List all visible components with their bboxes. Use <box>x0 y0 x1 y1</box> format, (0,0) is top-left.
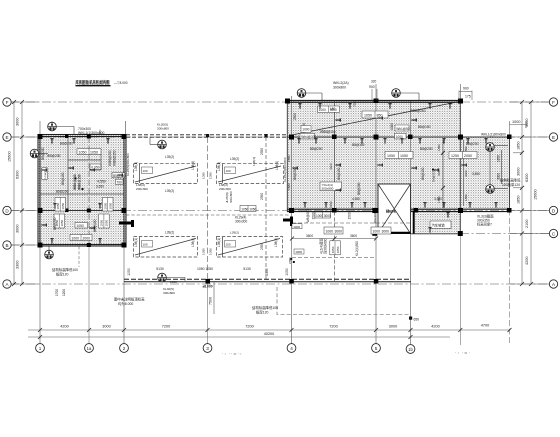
svg-text:1050: 1050 <box>104 202 108 209</box>
grid axis E chain line <box>10 136 549 138</box>
tag circle left block top <box>48 122 74 135</box>
big block right edge x460 <box>459 101 461 235</box>
right dimension lines <box>510 102 549 284</box>
svg-text:2350: 2350 <box>287 155 291 162</box>
svg-text:KL2(4)300: KL2(4)300 <box>355 241 359 256</box>
scattered labels below D area <box>306 209 359 256</box>
white box on E line big block <box>300 133 317 139</box>
svg-text:B8@200: B8@200 <box>420 147 433 151</box>
beam row1 slope lines <box>135 166 281 182</box>
svg-text:Wb4@300: Wb4@300 <box>301 135 316 139</box>
leader below left block <box>78 247 80 268</box>
svg-text:3,550: 3,550 <box>96 185 104 189</box>
svg-text:300x800: 300x800 <box>333 86 346 90</box>
columns left block <box>38 134 127 248</box>
svg-text:3000: 3000 <box>389 325 397 329</box>
white label box 0.050 left block <box>90 164 101 170</box>
svg-text:B6@200: B6@200 <box>432 170 436 182</box>
svg-text:5130: 5130 <box>243 267 251 271</box>
left dimension lines <box>10 102 38 284</box>
wall tee mark mid strip right <box>283 217 293 227</box>
svg-text:W8@200: W8@200 <box>306 209 310 223</box>
dim line y238.5 below D <box>290 237 378 241</box>
svg-text:1000: 1000 <box>512 120 520 124</box>
extra labels mid strip rows <box>136 157 256 284</box>
svg-text:6300: 6300 <box>16 171 20 179</box>
svg-text:1050: 1050 <box>202 248 206 255</box>
right block interior dim and tags <box>494 146 508 189</box>
extra labels big block band <box>352 101 426 113</box>
svg-text:板厚120: 板厚120 <box>256 310 269 315</box>
svg-text:WB8@150: WB8@150 <box>113 150 117 166</box>
svg-text:1: 1 <box>39 346 42 351</box>
big block bottom edge beam on D <box>287 209 510 211</box>
rotated white box pair above D right <box>103 198 114 212</box>
axis circle B left <box>3 241 11 249</box>
svg-text:1050 1050: 1050 1050 <box>197 267 213 271</box>
left block internal beam vertical x68 <box>67 137 69 211</box>
svg-text:B6@200: B6@200 <box>56 190 69 194</box>
svg-text:300x800: 300x800 <box>163 291 175 295</box>
svg-text:1050: 1050 <box>209 248 213 255</box>
left block outline beams <box>38 135 126 247</box>
svg-text:1050: 1050 <box>105 219 109 226</box>
top labels big block <box>333 81 471 99</box>
label box pair near stair <box>320 182 342 191</box>
scattered rebar labels left block <box>41 142 117 233</box>
faint marks bottom <box>222 351 470 356</box>
svg-text:B: B <box>5 243 8 248</box>
svg-text:1500: 1500 <box>348 212 352 219</box>
white box B5 right side <box>112 173 126 178</box>
svg-text:1700: 1700 <box>55 289 59 296</box>
svg-text:650: 650 <box>414 318 420 322</box>
svg-text:1850: 1850 <box>464 194 468 201</box>
svg-text:2: 2 <box>123 346 126 351</box>
stub above axis2 <box>124 121 126 135</box>
hatch ramp block below D <box>413 212 461 235</box>
svg-text:40200: 40200 <box>264 332 275 336</box>
svg-text:L39(2): L39(2) <box>165 155 174 159</box>
white box on D line below <box>315 212 331 218</box>
svg-text:100: 100 <box>143 243 148 247</box>
svg-text:3000: 3000 <box>335 229 343 233</box>
svg-text:4700: 4700 <box>481 324 489 328</box>
axis circle 4 bottom <box>287 344 296 353</box>
svg-text:WB8@200: WB8@200 <box>73 174 77 190</box>
svg-text:1050: 1050 <box>127 268 131 276</box>
svg-text:B8@150: B8@150 <box>337 167 341 180</box>
white box 1000 left band big block <box>301 126 311 133</box>
dim labels mid strip bottom <box>127 267 289 276</box>
svg-text:1050: 1050 <box>77 224 85 228</box>
svg-text:3000: 3000 <box>16 118 20 126</box>
small marks on strip top edge <box>206 134 209 137</box>
svg-text:库房屋面(机房层)结构图: 库房屋面(机房层)结构图 <box>76 79 110 86</box>
svg-text:2100: 2100 <box>525 220 529 228</box>
bottom dimension lines <box>28 330 510 337</box>
svg-text:4,550: 4,550 <box>97 180 106 184</box>
tag circle right block lower <box>486 151 495 194</box>
white box on E line big block 2 <box>395 133 407 139</box>
grid axis 8 vertical <box>509 210 511 346</box>
columns big block <box>285 99 512 237</box>
svg-text:2000: 2000 <box>83 236 91 240</box>
rotated dim pair row1 gap <box>202 172 213 255</box>
svg-text:200x300: 200x300 <box>136 187 148 191</box>
box 1000 left edge below D <box>292 224 302 229</box>
end tick 1000 dim right <box>525 121 527 128</box>
rotated box pair below D left <box>54 214 65 228</box>
svg-text:L38(4): L38(4) <box>274 238 278 247</box>
white box pair lower left block <box>70 235 92 241</box>
svg-text:100: 100 <box>143 169 148 173</box>
beam row2 slope lines <box>135 239 280 256</box>
svg-text:L38(1): L38(1) <box>134 238 138 247</box>
beam line stub x101 <box>100 154 102 170</box>
stair opening white <box>378 184 411 234</box>
svg-text:1050: 1050 <box>387 154 395 158</box>
svg-text:· ： · · ＝ · ：: · ： · · ＝ · ： <box>222 352 244 356</box>
svg-text:2350: 2350 <box>288 257 292 264</box>
hatch slab left block <box>38 134 127 247</box>
axis circle 1a bottom <box>85 344 94 353</box>
right block right edge <box>509 137 511 210</box>
svg-text:900: 900 <box>463 87 469 91</box>
svg-text:5: 5 <box>375 346 378 351</box>
svg-text:标高同梁7: 标高同梁7 <box>477 222 492 227</box>
box 1050 below D left block <box>75 223 88 229</box>
big block inner dim line x443 <box>437 140 445 208</box>
big block top edge beam on F <box>287 101 461 103</box>
svg-text:WKL2(2A): WKL2(2A) <box>333 81 349 85</box>
svg-text:1000: 1000 <box>373 229 381 233</box>
white box pair on D mid strip <box>240 206 257 212</box>
svg-text:L38(4): L38(4) <box>191 238 195 247</box>
grid axis B chain line <box>10 244 40 246</box>
svg-text:3,550: 3,550 <box>472 172 480 176</box>
note text mid bottom <box>114 297 145 307</box>
svg-text:7200: 7200 <box>245 325 253 329</box>
svg-text:1050: 1050 <box>336 246 340 253</box>
left block internal beam on D <box>38 210 126 212</box>
dashed region boundary below plan <box>277 287 410 315</box>
grid axis 3 vertical <box>207 137 209 281</box>
svg-text:B8@200: B8@200 <box>357 182 361 195</box>
rebar hook marks vertical beams big block <box>292 116 466 191</box>
svg-text:3000: 3000 <box>382 229 390 233</box>
svg-text:1050: 1050 <box>170 280 177 284</box>
svg-text:1000: 1000 <box>302 128 309 132</box>
axis circle A left <box>3 280 11 288</box>
svg-text:3000: 3000 <box>324 214 331 218</box>
svg-text:0.050: 0.050 <box>91 165 100 169</box>
columns middle strip bottom <box>206 279 379 284</box>
svg-text:1a: 1a <box>87 346 92 351</box>
svg-text:1050: 1050 <box>209 172 213 179</box>
white label box 1050 1050 left block <box>77 149 101 155</box>
svg-text:1200: 1200 <box>62 289 66 296</box>
svg-text:±8.000: ±8.000 <box>203 285 213 289</box>
svg-text:100板厚120: 100板厚120 <box>502 182 520 187</box>
ramp block edges <box>411 212 461 235</box>
rotated box pair on beam x334 <box>330 241 341 255</box>
svg-text:2050: 2050 <box>464 154 472 158</box>
axis circle D right <box>549 206 557 214</box>
hatch slab right block E-D <box>461 137 510 209</box>
note text below bottom edge mid <box>163 287 175 295</box>
wall tee mark left block <box>119 220 134 227</box>
rebar cluster x433 <box>432 169 436 183</box>
rotated dims left of axis4 <box>287 155 291 190</box>
axis circle F right <box>549 98 557 106</box>
grid axis 7 vertical <box>459 84 461 101</box>
svg-text:100: 100 <box>226 169 231 173</box>
svg-text:100: 100 <box>226 243 231 247</box>
svg-text:· ： · ＝ ·: · ： · ＝ · <box>455 351 470 355</box>
svg-text:结构标高降低100: 结构标高降低100 <box>252 305 278 310</box>
beam row1 dashed rect left <box>134 163 284 183</box>
svg-text:1050: 1050 <box>90 150 98 154</box>
rebar hook marks along D beam big block <box>303 202 497 207</box>
svg-text:1050: 1050 <box>331 246 335 253</box>
svg-text:E: E <box>5 135 8 140</box>
svg-text:B5@150: B5@150 <box>113 174 126 178</box>
labels above left block <box>78 127 105 135</box>
grid axis 5 vertical <box>375 84 377 344</box>
grid axis C chain line <box>460 233 549 235</box>
svg-text:1850: 1850 <box>517 196 521 204</box>
tag circle big block top 1 <box>297 89 322 101</box>
hatch slab upper right big block <box>287 101 461 212</box>
svg-text:WKL1(1)300x800: WKL1(1)300x800 <box>481 133 506 137</box>
svg-text:2350: 2350 <box>260 243 264 250</box>
svg-text:1000: 1000 <box>293 225 300 229</box>
svg-text:1500: 1500 <box>287 183 291 190</box>
svg-text:1850: 1850 <box>517 142 521 150</box>
beam row2 dashed rect <box>134 237 283 258</box>
right dim labels <box>517 119 538 265</box>
end mark 650 at axis6 bottom <box>409 317 412 320</box>
svg-text:4,550: 4,550 <box>352 197 360 201</box>
tag circle right block upper <box>486 143 495 152</box>
stair side columns <box>372 208 377 213</box>
tag circle mid strip <box>150 138 166 149</box>
svg-text:WB8@200: WB8@200 <box>108 150 112 166</box>
svg-text:WB8@150: WB8@150 <box>320 130 336 134</box>
white label box 1050 850 big block top <box>362 111 388 118</box>
svg-text:1000: 1000 <box>326 229 334 233</box>
tag circle big block top 2 <box>392 89 419 101</box>
rebar hook marks ramp block <box>428 212 449 232</box>
svg-text:320: 320 <box>371 80 377 84</box>
svg-text:1050: 1050 <box>285 268 289 276</box>
stair opening with cross <box>373 184 411 234</box>
svg-text:1000: 1000 <box>316 214 323 218</box>
white label box ramp <box>430 221 451 229</box>
svg-text:300x800: 300x800 <box>229 191 233 203</box>
svg-text:—▽8.000: —▽8.000 <box>114 81 128 85</box>
big block E beam line <box>287 136 510 138</box>
svg-text:1000: 1000 <box>396 135 403 139</box>
rebar cluster axis4 y260 <box>290 258 295 263</box>
beam end bars row1 rects <box>140 164 223 257</box>
svg-text:B8@150: B8@150 <box>93 219 97 232</box>
title text <box>76 79 128 86</box>
small boxes row1 rect left ends <box>142 167 236 247</box>
svg-text:2500: 2500 <box>293 113 297 120</box>
area below D beams dashed <box>292 212 410 282</box>
svg-text:B8@150: B8@150 <box>352 143 365 147</box>
svg-text:KL28(5)300x800: KL28(5)300x800 <box>126 153 130 176</box>
beam line y170 stub <box>90 169 101 171</box>
svg-text:F: F <box>552 100 555 105</box>
svg-text:4200: 4200 <box>525 257 529 265</box>
big block left edge <box>286 101 288 212</box>
middle strip top edge dashed beam on E <box>126 135 287 137</box>
svg-text:15600: 15600 <box>534 189 538 200</box>
axis circle F left <box>3 98 11 106</box>
svg-text:L38(4): L38(4) <box>191 161 195 170</box>
svg-text:L39(2): L39(2) <box>230 157 239 161</box>
svg-text:2350: 2350 <box>265 268 269 276</box>
second dim labels x466 <box>464 140 469 206</box>
svg-text:1000: 1000 <box>295 250 302 254</box>
svg-text:B8@200: B8@200 <box>293 167 297 180</box>
small rotated dims below B <box>55 289 66 296</box>
rotated pair mid strip right <box>225 191 233 203</box>
svg-text:B8@200: B8@200 <box>41 147 45 160</box>
svg-text:200x300: 200x300 <box>219 187 231 191</box>
svg-text:1050: 1050 <box>100 219 104 226</box>
box 1000 left edge lower <box>294 249 304 254</box>
svg-text:B8@150: B8@150 <box>421 167 425 180</box>
svg-text:L39(2): L39(2) <box>165 189 174 193</box>
svg-text:2350: 2350 <box>260 193 264 200</box>
big block inner vertical x334.5 <box>334 101 336 212</box>
tag circle bottom edge mid <box>158 273 185 282</box>
svg-text:1000: 1000 <box>390 123 394 130</box>
svg-text:3300: 3300 <box>16 261 20 269</box>
white label box 1000 3000 below D second <box>371 227 391 234</box>
svg-text:6300: 6300 <box>525 174 529 182</box>
svg-text:B8@200: B8@200 <box>60 142 73 146</box>
svg-text:3600: 3600 <box>350 234 357 238</box>
svg-text:均为8.000: 均为8.000 <box>118 301 133 306</box>
svg-text:700: 700 <box>117 180 123 184</box>
svg-text:梯B9E: 梯B9E <box>386 208 397 213</box>
svg-text:1050: 1050 <box>241 207 248 211</box>
axis circle D left <box>3 206 11 214</box>
svg-text:1050: 1050 <box>60 219 64 226</box>
svg-text:3000: 3000 <box>517 168 521 176</box>
svg-text:L39(2): L39(2) <box>230 231 239 235</box>
svg-text:WB8@150: WB8@150 <box>78 174 82 190</box>
svg-text:150: 150 <box>330 107 336 111</box>
svg-text:B8@200: B8@200 <box>310 147 323 151</box>
svg-text:4200: 4200 <box>60 325 68 329</box>
svg-text:2350: 2350 <box>260 148 264 155</box>
grid axis 1 vertical <box>39 121 41 344</box>
svg-text:WB8@150: WB8@150 <box>410 109 426 113</box>
svg-text:3600: 3600 <box>306 234 313 238</box>
tag circle left block left edge <box>30 149 48 158</box>
left block internal beam y194 <box>40 193 124 195</box>
scattered labels mid strip <box>134 148 279 250</box>
axis circle E left <box>3 133 11 141</box>
svg-text:L38(1): L38(1) <box>217 162 221 171</box>
grid axis 6 vertical <box>410 100 412 344</box>
axis circle E right <box>549 133 557 141</box>
white box 700 right side <box>116 179 124 184</box>
top dim marks 900 <box>372 89 472 100</box>
svg-text:4100: 4100 <box>329 163 333 170</box>
svg-text:L39(2): L39(2) <box>165 231 174 235</box>
svg-text:1050: 1050 <box>79 150 87 154</box>
svg-text:7500: 7500 <box>209 297 213 305</box>
svg-text:1050: 1050 <box>61 202 65 209</box>
white label box 1000 3000 below D <box>324 227 343 234</box>
small box x395 y125 <box>395 125 410 131</box>
axis circle 1 bottom <box>36 344 45 353</box>
vertical dim 7500 below axis3 <box>213 282 215 314</box>
svg-text:Wb1@50: Wb1@50 <box>396 127 410 131</box>
axis circle A right <box>549 280 557 288</box>
svg-text:E: E <box>552 135 555 140</box>
svg-text:汽车坡道: 汽车坡道 <box>432 223 446 228</box>
svg-text:300x300: 300x300 <box>235 220 247 224</box>
beam labels row mid strip <box>126 214 290 216</box>
grid axis 2 vertical <box>123 134 125 344</box>
rebar hook marks along E beam big block <box>297 138 487 143</box>
svg-text:1050: 1050 <box>364 113 372 117</box>
dark cluster left block <box>73 174 84 190</box>
grid axis 4 vertical <box>291 96 293 344</box>
white label box 1250 2050 right block <box>449 152 477 159</box>
grid axis A chain line <box>10 283 549 285</box>
rotated box pair below D right <box>99 214 110 228</box>
svg-text:1850: 1850 <box>497 155 501 162</box>
svg-text:850: 850 <box>377 113 383 117</box>
rotated white box pair above D left <box>55 198 66 212</box>
scattered labels big block <box>293 107 480 201</box>
left dim labels <box>8 118 20 269</box>
svg-text:1050: 1050 <box>109 202 113 209</box>
tag circle below left block <box>45 247 54 259</box>
svg-text:3150: 3150 <box>329 201 333 208</box>
svg-text:3,550: 3,550 <box>434 197 442 201</box>
svg-text:300x300: 300x300 <box>373 212 377 224</box>
svg-text:4: 4 <box>290 346 293 351</box>
svg-text:F: F <box>6 100 9 105</box>
grid axis D chain line <box>10 210 549 212</box>
grid axis 1a vertical <box>88 137 90 245</box>
svg-text:L38(1): L38(1) <box>134 162 138 171</box>
svg-text:900: 900 <box>369 85 375 89</box>
note text below axis4 <box>252 305 278 315</box>
note text ramp right <box>477 214 494 227</box>
svg-text:3000: 3000 <box>16 225 20 233</box>
svg-text:1050: 1050 <box>249 207 256 211</box>
axis circle C right <box>549 229 557 237</box>
svg-text:3000: 3000 <box>525 119 529 127</box>
svg-text:4200: 4200 <box>431 325 439 329</box>
svg-text:W8@200: W8@200 <box>47 154 61 158</box>
svg-text:同300x800: 同300x800 <box>323 238 328 254</box>
left block internal beam y160 <box>68 159 101 161</box>
rotated box left edge <box>42 168 47 180</box>
svg-text:L38(1): L38(1) <box>217 238 221 247</box>
